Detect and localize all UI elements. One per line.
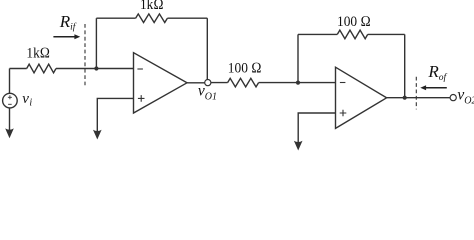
svg-text:100 Ω: 100 Ω: [228, 61, 262, 77]
wire feedback1 right vertical down to node: [206, 18, 208, 79]
plus sign U2: [340, 110, 347, 117]
wire feedback2 left vertical: [297, 34, 299, 82]
wire out1 from tip to node: [187, 82, 205, 84]
svg-text:100 Ω: 100 Ω: [337, 14, 371, 30]
svg-text:Rif: Rif: [59, 12, 77, 33]
wire top1 left: [96, 17, 135, 19]
resistor R4 100 Ohm feedback zigzag: [337, 30, 367, 39]
resistor R1 1kOhm input zigzag: [27, 64, 56, 73]
wire ground1 stem under source: [9, 108, 11, 133]
resistor R3 100 Ohm series zigzag: [228, 78, 259, 87]
svg-text:1kΩ: 1kΩ: [140, 0, 164, 13]
resistor R2 1kOhm feedback zigzag: [136, 14, 168, 23]
arrow for Rif: [53, 36, 75, 38]
ground arrowhead under U2 plus: [294, 141, 303, 151]
wire input rail right to op-amp: [56, 68, 134, 70]
dashed measurement line Rif: [84, 24, 86, 85]
wire source top to input rail: [9, 69, 11, 94]
junction node at feedback2 / mid rail: [296, 81, 300, 85]
minus sign inside source: [8, 103, 12, 105]
wire top2 right: [368, 33, 405, 35]
node circle terminal vO2: [450, 95, 456, 101]
wire mid rail node to R3: [211, 82, 228, 84]
voltage source Vi: [3, 93, 18, 108]
svg-text:1kΩ: 1kΩ: [26, 46, 50, 62]
junction node at feedback2 / out2 rail: [403, 96, 407, 100]
wire plus2 input to ground: [298, 113, 335, 145]
ground arrowhead under source: [5, 128, 14, 138]
svg-text:Rof: Rof: [427, 62, 447, 83]
svg-text:vi: vi: [22, 91, 32, 109]
ground arrowhead under U1 plus: [93, 130, 102, 140]
minus sign U2: [340, 82, 346, 84]
plus sign inside source: [8, 95, 12, 99]
wire top2 left: [298, 33, 337, 35]
op-amp U2 triangle: [336, 67, 387, 128]
wire feedback2 right vertical: [404, 34, 406, 97]
wire top1 right: [167, 17, 207, 19]
svg-text:vO2: vO2: [457, 86, 474, 106]
arrow for Rof: [425, 87, 447, 89]
wire plus1 input to ground: [97, 98, 133, 134]
plus sign U1: [138, 95, 145, 102]
wire out2 from tip to terminal: [387, 97, 451, 99]
minus sign U1: [137, 68, 143, 70]
wire input rail left: [10, 68, 27, 70]
dashed measurement line Rof: [415, 77, 417, 110]
op-amp U1 triangle: [134, 53, 188, 113]
wire feedback1 left vertical: [95, 18, 97, 68]
node circle terminal vO1: [205, 80, 211, 86]
junction node at feedback1 / input rail: [94, 66, 98, 70]
wire mid rail R3 to op-amp U2: [259, 82, 336, 84]
